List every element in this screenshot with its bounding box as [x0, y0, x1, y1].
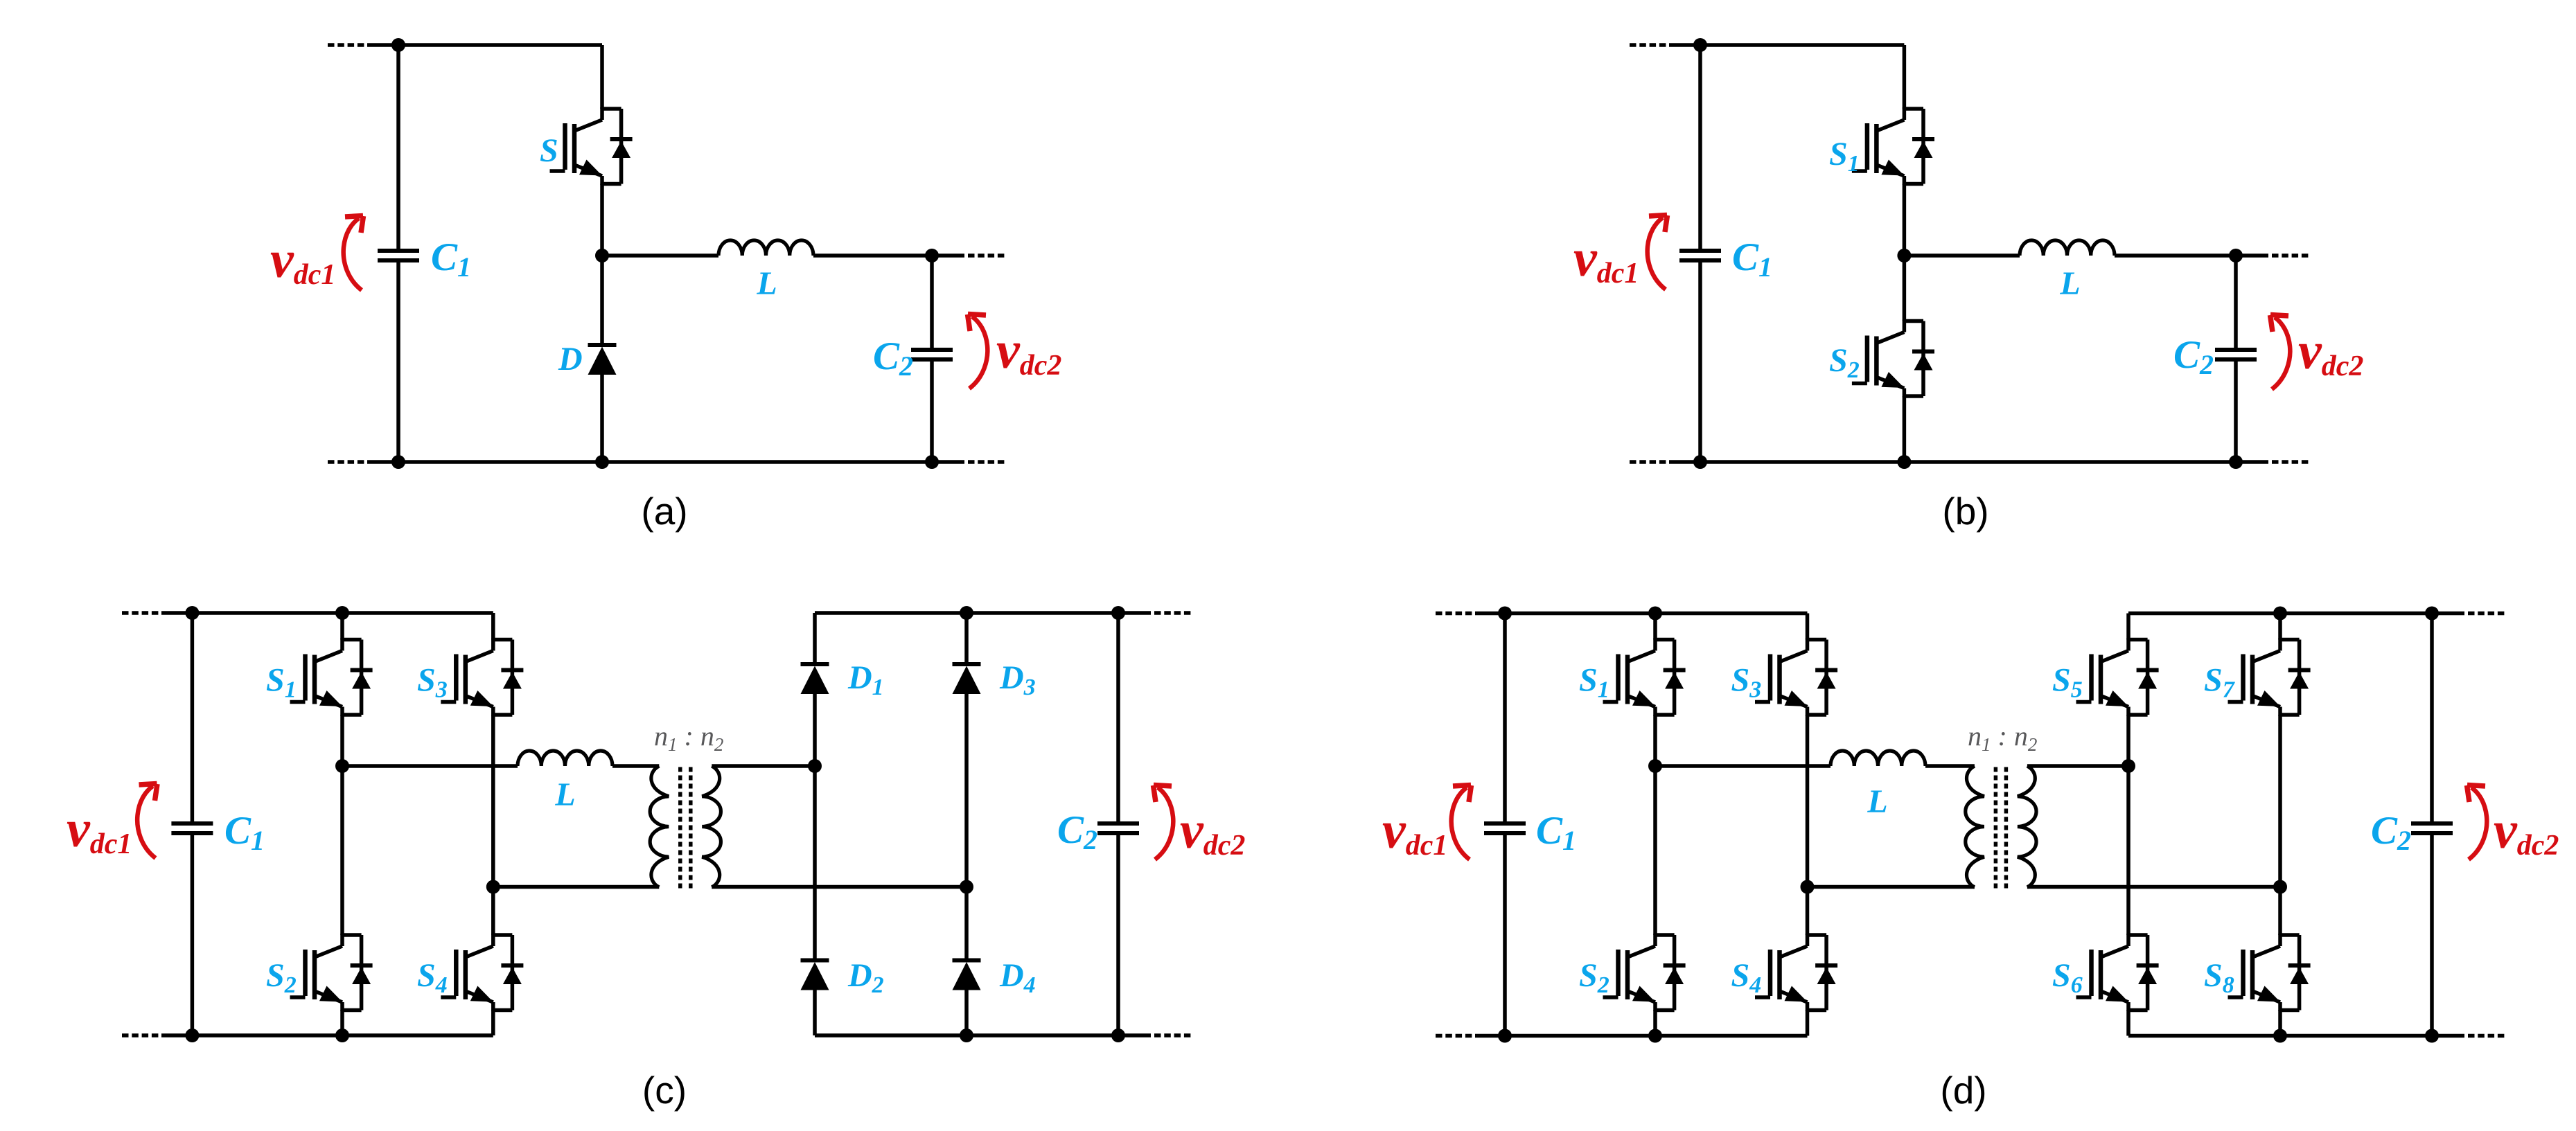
wire (a) S emitter to mid node: [600, 184, 604, 256]
wire (b) left rail upper: [1698, 45, 1702, 251]
wire (d) S1 emitter to bridge node A: [1653, 715, 1657, 766]
wire (d) S6 emitter to bottom rail: [2126, 1010, 2131, 1036]
voltage arrow v_dc2 (c): [1154, 785, 1174, 860]
wire (b) S2 emitter to bottom rail: [1903, 396, 1907, 462]
junction (b) top rail / C1 node: [1693, 38, 1707, 52]
transistor S2 (IGBT with anti-parallel diode): [1603, 934, 1686, 1011]
transistor S4 (IGBT with anti-parallel diode): [441, 934, 523, 1011]
junction (c) top S1-leg node: [335, 606, 349, 620]
wire (d) top rail left stub (dashed stub): [1436, 612, 1475, 616]
wire (a) mid node to diode D: [600, 256, 604, 345]
capacitor C1: [1679, 251, 1721, 260]
transistor S2 (IGBT with anti-parallel diode): [1852, 320, 1934, 398]
wire (d) node C to S6: [2126, 766, 2131, 935]
junction (c) top D3-leg node: [960, 606, 973, 620]
wire (b) mid node to S2: [1903, 256, 1907, 321]
svg-text:(d): (d): [1940, 1069, 1986, 1112]
wire (c) L to transformer primary: [612, 764, 659, 768]
wire (d) S7 collector drop: [2278, 614, 2282, 640]
wire (c) bottom rail right stub (dashed stub): [1154, 1033, 1192, 1038]
wire (d) S8 emitter to bottom rail: [2278, 1010, 2282, 1036]
junction (c) bottom D4-leg node: [960, 1028, 973, 1042]
wire (d) bottom rail right stub solid: [2432, 1034, 2464, 1038]
voltage arrow v_dc2 (a): [968, 314, 988, 389]
svg-text:(b): (b): [1942, 490, 1988, 533]
junction (c) bridge node B: [486, 880, 500, 894]
junction (b) bottom left node: [1693, 455, 1707, 469]
junction (a) bottom right node: [925, 455, 939, 469]
transistor S5 (IGBT with anti-parallel diode): [2076, 639, 2159, 716]
diode D4: [953, 961, 981, 990]
wire (c) bottom rail left stub (dashed stub): [122, 1033, 161, 1038]
wire (b) bottom rail right stub (dashed stub): [2272, 460, 2309, 464]
capacitor C1 (c): [171, 823, 213, 833]
wire (d) node A to L: [1655, 764, 1830, 768]
wire (c) top rail right stub solid: [1118, 611, 1151, 615]
wire (d) S3 collector drop: [1806, 614, 1810, 640]
svg-text:L: L: [1867, 783, 1887, 820]
junction (d) top S1-leg node: [1648, 607, 1662, 621]
wire (c) node B to S4: [491, 887, 495, 936]
wire (c) bottom rail left: [161, 1033, 493, 1038]
wire (c) secondary bottom to rectifier node: [712, 885, 967, 889]
junction (a) switch-node: [595, 249, 609, 262]
transistor S2 (IGBT with anti-parallel diode): [290, 934, 373, 1011]
svg-text:n1 : n2: n1 : n2: [654, 720, 723, 755]
wire (c) bottom rail right stub solid: [1118, 1033, 1151, 1038]
wire (c) D2 anode to bottom rail: [813, 990, 817, 1036]
transistor S4 (IGBT with anti-parallel diode): [1755, 934, 1837, 1011]
wire (c) node A to S2: [340, 766, 344, 935]
junction (a) output node: [925, 249, 939, 262]
wire (c) D1 cathode wire: [813, 613, 817, 664]
junction (c) bridge node A: [335, 759, 349, 773]
wire (c) D4 anode to bottom rail: [964, 990, 969, 1036]
wire (b) bottom rail: [1669, 460, 2236, 464]
wire (d) bottom rail left: [1475, 1034, 1808, 1038]
wire (c) C1 leg upper: [191, 613, 195, 823]
voltage arrow v_dc2 (b): [2270, 315, 2291, 390]
wire (a) left rail lower: [396, 260, 400, 462]
svg-text:D: D: [558, 341, 583, 377]
wire (b) bottom rail right stub solid: [2236, 460, 2268, 464]
junction (d) bridge node D: [2273, 880, 2287, 894]
wire (d) S4 emitter to bottom rail: [1806, 1010, 1810, 1036]
wire (d) top rail right stub (dashed stub): [2468, 612, 2505, 616]
wire (c) node A to L: [342, 764, 518, 768]
wire (b) output leg lower: [2234, 359, 2238, 462]
wire (c) S1 collector drop: [340, 613, 344, 640]
wire (b) mid rail to L: [1904, 253, 2020, 258]
capacitor C2: [911, 350, 953, 359]
wire (b) bottom rail left stub (dashed stub): [1630, 460, 1669, 464]
junction (c) bottom S2-leg node: [335, 1028, 349, 1042]
wire (d) S1 collector drop: [1653, 614, 1657, 640]
transistor S (IGBT with anti-parallel diode): [550, 107, 633, 185]
junction (c) rectifier input node bottom: [960, 880, 973, 894]
junction (b) bottom right node: [2229, 455, 2243, 469]
transistor S3 (IGBT with anti-parallel diode): [1755, 639, 1837, 716]
capacitor C2 (c): [1097, 823, 1139, 833]
junction (d) bottom S8-leg node: [2273, 1029, 2287, 1043]
svg-text:L: L: [756, 265, 777, 302]
junction (c) rectifier input node top: [808, 759, 822, 773]
wire (a) L to output node: [813, 253, 932, 258]
voltage arrow v_dc1 (a): [344, 216, 364, 291]
junction (d) bridge node A: [1648, 759, 1662, 773]
transistor S1 (IGBT with anti-parallel diode): [1603, 639, 1686, 716]
wire (b) S1 emitter to mid node: [1903, 184, 1907, 256]
wire (a) collector drop to S: [600, 45, 604, 109]
wire (c) C1 leg lower: [191, 833, 195, 1035]
junction (b) output node: [2229, 249, 2243, 262]
capacitor C1: [378, 251, 419, 260]
wire (a) bottom rail right stub (dashed stub): [968, 460, 1005, 464]
wire (d) L to transformer primary: [1925, 764, 1975, 768]
wire (b) output leg upper: [2234, 256, 2238, 350]
junction (d) bridge node C: [2121, 759, 2135, 773]
wire (d) S3 emitter to bridge node B: [1806, 715, 1810, 887]
wire (d) S5 emitter to node C: [2126, 715, 2131, 766]
wire (a) bottom rail right stub solid: [932, 460, 964, 464]
junction (d) bottom C1 node: [1498, 1029, 1512, 1043]
wire (c) S3 collector drop: [491, 613, 495, 640]
wire (b) mid rail right stub (dashed stub): [2272, 253, 2309, 258]
wire (c) S1 emitter to bridge node A: [340, 715, 344, 766]
wire (d) top rail right stub solid: [2432, 612, 2464, 616]
wire (c) node B to transformer primary bottom: [493, 885, 660, 889]
wire (d) S7 emitter to node D: [2278, 715, 2282, 887]
junction (b) bottom mid node: [1897, 455, 1911, 469]
wire (b) top rail left stub (dashed stub): [1630, 43, 1669, 47]
junction (d) bottom C2 node: [2425, 1029, 2439, 1043]
junction (a) bottom left node: [391, 455, 405, 469]
wire (b) collector drop to S1: [1903, 45, 1907, 109]
wire (c) top rail right: [815, 611, 1118, 615]
wire (d) C1 leg upper: [1503, 614, 1507, 824]
wire (d) bottom rail left stub (dashed stub): [1436, 1034, 1475, 1038]
wire (d) top rail left: [1475, 612, 1808, 616]
wire (b) mid rail right stub solid: [2236, 253, 2268, 258]
transformer T (d) (n1:n2): [1966, 766, 2036, 889]
wire (d) node A to S2: [1653, 766, 1657, 935]
wire (a) output leg upper: [930, 256, 934, 350]
wire (c) secondary top to rectifier node: [712, 764, 815, 768]
wire (c) C2 leg lower: [1116, 833, 1120, 1035]
wire (d) C2 leg upper: [2430, 614, 2434, 824]
transistor S1 (IGBT with anti-parallel diode): [1852, 107, 1934, 185]
wire (d) bottom rail right stub (dashed stub): [2468, 1034, 2505, 1038]
diode D1: [801, 664, 829, 694]
wire (b) L to output node: [2115, 253, 2236, 258]
wire (c) C2 leg upper: [1116, 613, 1120, 823]
wire (c) bottom rail right: [815, 1033, 1118, 1038]
wire (c) top rail right stub (dashed stub): [1154, 611, 1192, 615]
junction (c) bottom C2 node: [1111, 1028, 1125, 1042]
inductor L: [2020, 240, 2115, 256]
wire (c) top rail left: [161, 611, 493, 615]
wire (a) mid rail right stub (dashed stub): [968, 253, 1005, 258]
wire (a) bottom rail left stub (dashed stub): [328, 460, 367, 464]
wire (a) mid rail right stub solid: [932, 253, 964, 258]
voltage arrow v_dc1 (c): [137, 784, 157, 859]
wire (c) S3 emitter to bridge node B: [491, 715, 495, 887]
wire (d) secondary bottom to bridge node D: [2027, 885, 2280, 889]
wire (d) node B to S4: [1806, 887, 1810, 936]
transformer T (c) (n1:n2): [650, 766, 721, 889]
wire (d) C1 leg lower: [1503, 833, 1507, 1036]
wire (a) top rail: [367, 43, 602, 47]
wire (d) secondary top to bridge node C: [2027, 764, 2128, 768]
wire (a) top rail left stub (dashed stub): [328, 43, 367, 47]
inductor L: [718, 240, 813, 256]
voltage arrow v_dc1 (d): [1452, 785, 1472, 860]
transistor S8 (IGBT with anti-parallel diode): [2228, 934, 2311, 1011]
wire (a) output leg lower: [930, 359, 934, 462]
wire (a) bottom rail: [367, 460, 932, 464]
svg-text:L: L: [554, 776, 575, 813]
svg-text:(a): (a): [641, 490, 687, 533]
transistor S3 (IGBT with anti-parallel diode): [441, 639, 523, 716]
wire (c) D-leg1 middle wire: [813, 766, 817, 961]
diode D2: [801, 961, 829, 990]
wire (c) D3 anode wire: [964, 694, 969, 887]
junction (a) top rail / C1 node: [391, 38, 405, 52]
wire (d) S5 collector drop: [2126, 614, 2131, 640]
junction (c) top C1 node: [185, 606, 199, 620]
wire (d) C2 leg lower: [2430, 833, 2434, 1036]
capacitor C1 (d): [1484, 823, 1526, 833]
svg-text:S: S: [540, 132, 558, 169]
wire (c) D3 cathode wire: [964, 613, 969, 664]
diode D: [588, 345, 617, 375]
wire (d) bottom rail right: [2128, 1034, 2432, 1038]
junction (d) bridge node B: [1801, 880, 1815, 894]
junction (a) bottom mid node: [595, 455, 609, 469]
wire (d) node D to S8: [2278, 887, 2282, 936]
wire (b) top rail: [1669, 43, 1904, 47]
wire (b) left rail lower: [1698, 260, 1702, 462]
capacitor C2: [2215, 350, 2257, 359]
wire (c) S2 emitter to bottom rail: [340, 1010, 344, 1036]
wire (c) top rail left stub (dashed stub): [122, 611, 161, 615]
wire (c) D1 anode wire: [813, 694, 817, 766]
transistor S1 (IGBT with anti-parallel diode): [290, 639, 373, 716]
svg-text:n1 : n2: n1 : n2: [1968, 720, 2037, 755]
wire (a) D anode to bottom rail: [600, 375, 604, 462]
wire (d) S2 emitter to bottom rail: [1653, 1010, 1657, 1036]
wire (a) left rail upper: [396, 45, 400, 251]
junction (d) top C1 node: [1498, 607, 1512, 621]
svg-text:(c): (c): [642, 1069, 687, 1112]
voltage arrow v_dc2 (d): [2467, 785, 2487, 860]
wire (d) node B to transformer primary bottom: [1808, 885, 1975, 889]
diode D3: [953, 664, 981, 694]
inductor L (d): [1830, 751, 1925, 766]
capacitor C2 (d): [2411, 823, 2453, 833]
voltage arrow v_dc1 (b): [1648, 215, 1668, 290]
wire (c) S4 emitter to bottom rail: [491, 1010, 495, 1036]
junction (c) top C2 node: [1111, 606, 1125, 620]
wire (c) D-leg2 middle wire: [964, 887, 969, 961]
junction (c) bottom C1 node: [185, 1028, 199, 1042]
wire (a) mid rail to L: [602, 253, 718, 258]
transistor S7 (IGBT with anti-parallel diode): [2228, 639, 2311, 716]
junction (d) top S7-leg node: [2273, 607, 2287, 621]
inductor L (c): [518, 751, 612, 766]
svg-text:L: L: [2059, 265, 2080, 302]
junction (d) top C2 node: [2425, 607, 2439, 621]
junction (d) bottom S2-leg node: [1648, 1029, 1662, 1043]
transistor S6 (IGBT with anti-parallel diode): [2076, 934, 2159, 1011]
wire (d) top rail right: [2128, 612, 2432, 616]
junction (b) switch-node: [1897, 249, 1911, 262]
